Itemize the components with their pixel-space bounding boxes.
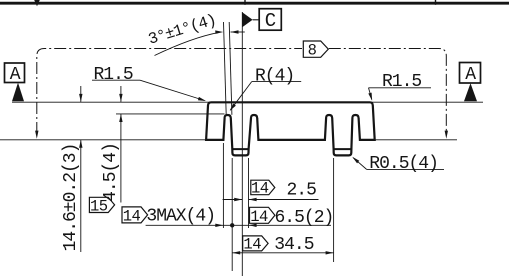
balloon 8 dash-dot line right <box>329 49 447 135</box>
svg-text:R0.5(4): R0.5(4) <box>369 154 438 174</box>
foot1 shoulder line <box>232 148 248 150</box>
svg-text:14: 14 <box>123 208 141 226</box>
svg-text:R1.5: R1.5 <box>94 65 133 85</box>
datum C triangle <box>242 12 252 27</box>
svg-text:14: 14 <box>250 208 268 226</box>
R(4) leader <box>230 82 251 111</box>
svg-text:6.5(2): 6.5(2) <box>275 208 334 228</box>
svg-text:A: A <box>10 65 21 85</box>
tag 14 (6.5) <box>250 207 275 223</box>
angle right segment <box>231 31 245 33</box>
tag 14 (2.5) <box>251 180 275 195</box>
svg-text:14.6±0.2(3): 14.6±0.2(3) <box>61 144 81 252</box>
foot1 left extension down <box>231 158 233 271</box>
svg-text:14: 14 <box>243 236 261 254</box>
bottom extension line left <box>0 139 206 141</box>
datum C box <box>259 9 281 31</box>
dim 14.6 lower line <box>80 140 82 252</box>
slant extension line 2 <box>229 22 232 115</box>
tag 15 <box>89 197 114 212</box>
svg-text:14: 14 <box>251 179 269 197</box>
part outline <box>206 102 375 155</box>
dim 4.5 text <box>101 143 121 202</box>
tag 14 (34.5) <box>243 236 268 251</box>
table tick 1 <box>244 0 246 5</box>
datum A left triangle <box>12 83 24 102</box>
svg-text:R(4): R(4) <box>255 66 294 86</box>
datum A right box <box>460 63 481 84</box>
cropped arrow on border <box>34 0 40 6</box>
svg-text:R1.5: R1.5 <box>382 72 421 92</box>
balloon 8 dash-dot line left <box>37 49 302 135</box>
table tick 2 <box>435 0 437 5</box>
slant extension line 1 <box>224 22 227 115</box>
svg-text:34.5: 34.5 <box>274 235 313 255</box>
foot2 left extension down <box>333 158 335 262</box>
datum A line <box>12 101 483 103</box>
angle right arrow <box>231 30 239 33</box>
datum A left box <box>5 63 25 83</box>
bottom extension line right <box>375 139 457 141</box>
angle text 3deg <box>146 11 218 49</box>
datum C leader <box>253 19 260 21</box>
foot2 shoulder line <box>334 148 352 150</box>
svg-text:C: C <box>265 10 276 32</box>
svg-text:3MAX(4): 3MAX(4) <box>146 207 215 227</box>
shared dim line 3MAX / 6.5 <box>146 224 331 226</box>
dim 2.5 line right <box>249 199 319 201</box>
angle leader arc <box>155 32 220 55</box>
R1.5 right leader <box>369 88 372 100</box>
dim 14.6 text <box>61 144 81 252</box>
dashdot end arrow left <box>35 131 38 139</box>
R0.5 leader <box>353 158 366 170</box>
dashdot end arrow right <box>445 131 448 139</box>
sheet border line (top) <box>0 2 509 5</box>
dim 34.5 line <box>232 252 333 254</box>
svg-text:4.5(4): 4.5(4) <box>101 143 121 202</box>
dim 14.6 upper arrow <box>80 86 82 102</box>
angle arc arrow <box>215 30 223 34</box>
tooth1 base extension down <box>222 143 224 228</box>
datum A right triangle <box>464 83 477 101</box>
dim 2.5 line left <box>223 199 243 201</box>
tag 8 <box>303 41 328 57</box>
svg-text:8: 8 <box>308 42 317 60</box>
svg-text:2.5: 2.5 <box>287 181 317 201</box>
dim 4.5 lower line <box>120 114 122 203</box>
centerline through C <box>241 12 243 276</box>
R1.5 left leader <box>140 80 205 100</box>
tooth top extension line <box>116 113 225 115</box>
foot1 right extension down <box>248 158 250 228</box>
tag 14 (3MAX) <box>122 207 148 223</box>
dim 4.5 upper arrow <box>120 86 122 102</box>
svg-text:A: A <box>465 65 476 85</box>
